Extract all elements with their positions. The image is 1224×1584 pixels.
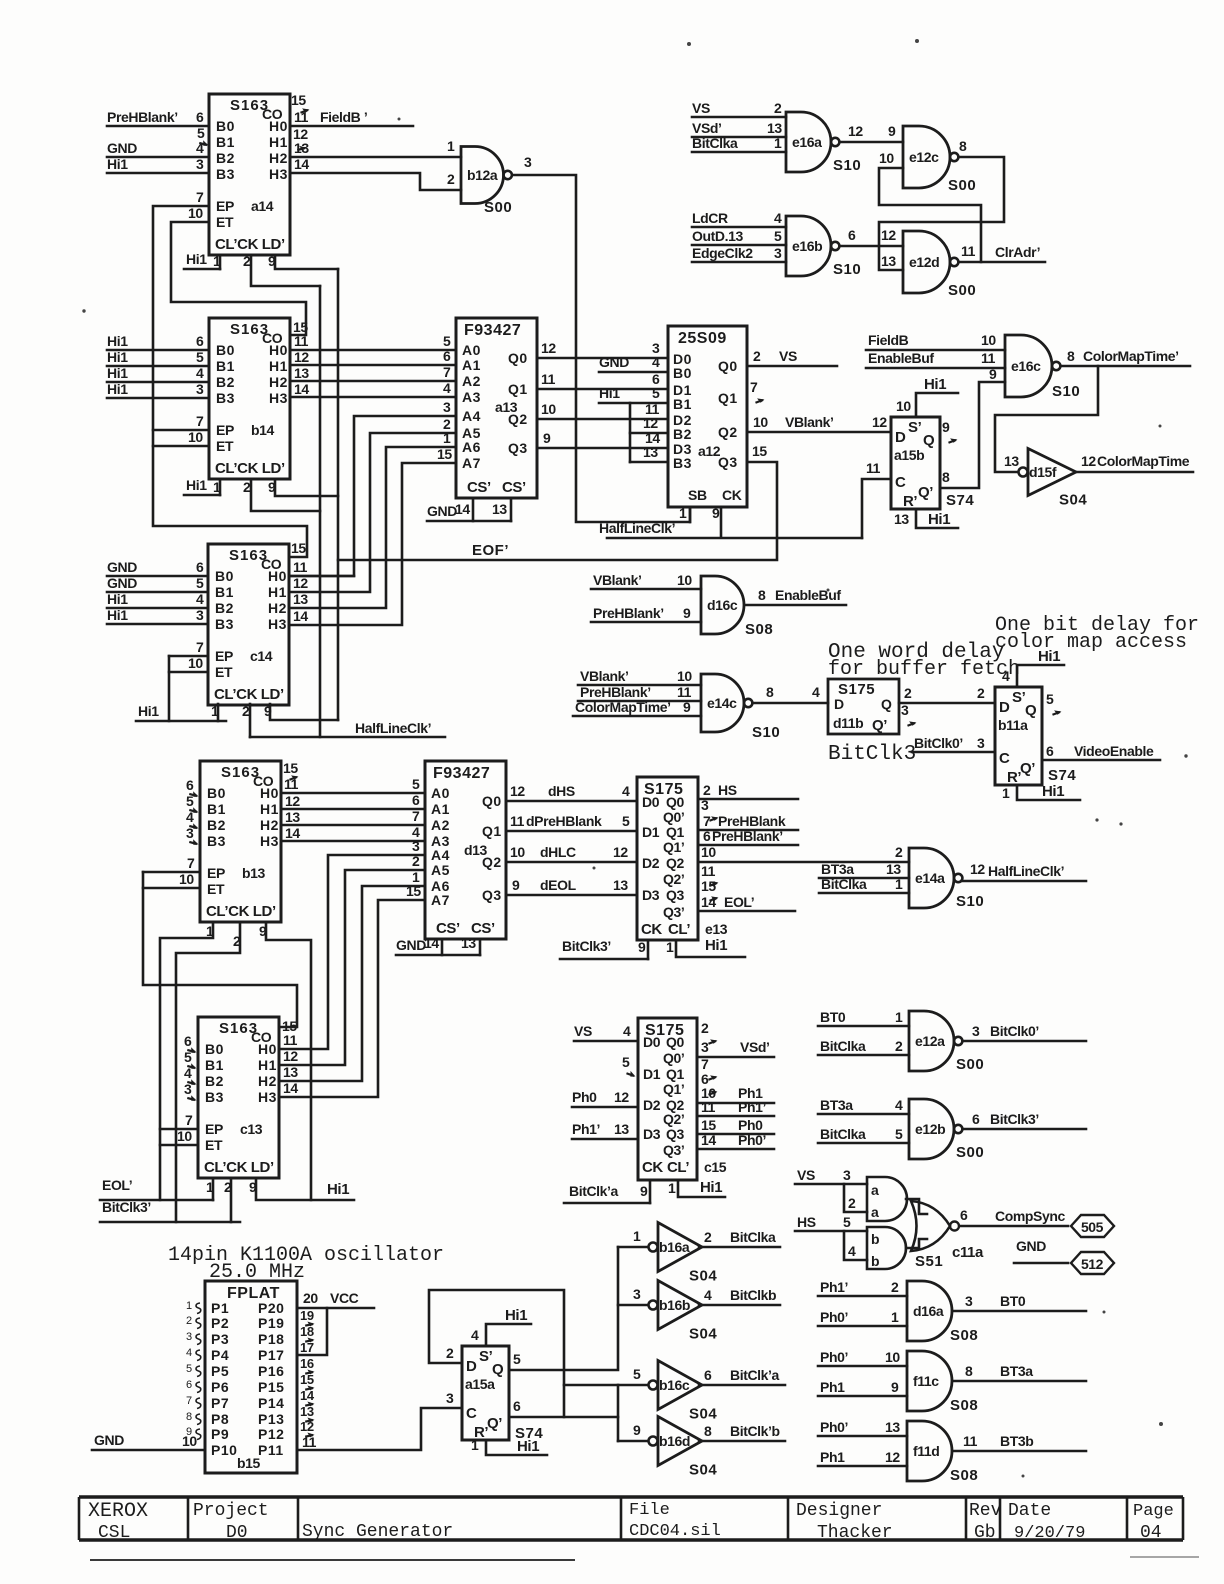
svg-text:2: 2 bbox=[224, 1179, 232, 1195]
wire a13.Q0 to a12.D0 bbox=[537, 357, 668, 360]
svg-text:P11: P11 bbox=[258, 1442, 284, 1458]
svg-text:3: 3 bbox=[196, 156, 204, 172]
wire GND to a14.B2 bbox=[107, 140, 209, 157]
svg-text:15: 15 bbox=[701, 878, 716, 894]
svg-text:Q’: Q’ bbox=[918, 484, 933, 501]
svg-text:4: 4 bbox=[471, 1327, 479, 1343]
svg-text:H0: H0 bbox=[269, 118, 288, 134]
svg-text:1: 1 bbox=[891, 1309, 899, 1325]
svg-text:H1: H1 bbox=[269, 358, 288, 374]
wire d13.Q1 dPreHBlank to e13.D1 bbox=[506, 830, 637, 833]
wire b11a.S' to Hi1 bbox=[1017, 665, 1064, 687]
wire b16b input bbox=[618, 1304, 648, 1307]
svg-text:S10: S10 bbox=[833, 261, 861, 278]
svg-text:P1: P1 bbox=[211, 1300, 229, 1316]
marks b15 unconnected inputs P1-P9 bbox=[186, 1300, 201, 1440]
wire Hi1 to b14.B2 bbox=[107, 365, 209, 382]
svg-text:S04: S04 bbox=[689, 1268, 717, 1285]
svg-text:11: 11 bbox=[961, 243, 976, 259]
svg-text:CDC04.sil: CDC04.sil bbox=[629, 1522, 721, 1541]
wire FieldB to e16c.10 bbox=[866, 332, 1005, 350]
svg-text:Q: Q bbox=[881, 696, 892, 712]
wire e14a.12 HalfLineClk' bbox=[963, 863, 1087, 881]
svg-text:ColorMapTime: ColorMapTime bbox=[1097, 453, 1190, 469]
svg-text:11: 11 bbox=[294, 333, 309, 349]
svg-text:11: 11 bbox=[701, 1099, 716, 1115]
svg-text:B3: B3 bbox=[215, 616, 234, 632]
nand gate b12a bbox=[461, 147, 512, 217]
wire e13.Q0 HS bbox=[698, 782, 798, 799]
svg-text:B2: B2 bbox=[215, 600, 234, 616]
svg-text:ClrAdr’: ClrAdr’ bbox=[995, 244, 1040, 260]
svg-text:4: 4 bbox=[848, 1243, 856, 1259]
svg-text:Q3: Q3 bbox=[482, 887, 502, 903]
svg-text:f11d: f11d bbox=[913, 1443, 939, 1459]
svg-text:Q0: Q0 bbox=[482, 793, 502, 809]
svg-text:1: 1 bbox=[774, 135, 782, 151]
svg-text:EOF’: EOF’ bbox=[472, 542, 509, 559]
wire GND a13 bbox=[427, 503, 511, 521]
wire b14.CO carry to a14.ET bbox=[171, 222, 306, 335]
and gate f11c bbox=[907, 1351, 978, 1414]
and gate d16a bbox=[907, 1281, 978, 1344]
svg-text:dHLC: dHLC bbox=[540, 844, 576, 860]
svg-text:12: 12 bbox=[294, 349, 309, 365]
wire b11a.R' to Hi1 bbox=[1017, 785, 1080, 800]
wire HalfLineClk' to a15b.C bbox=[862, 479, 891, 538]
counter a14 (S163) bbox=[209, 94, 290, 255]
wire BitClka to e16a.1 bbox=[692, 135, 786, 152]
wire e13.CL' to Hi1 bbox=[676, 940, 745, 957]
svg-text:7: 7 bbox=[185, 1112, 193, 1128]
svg-text:BT0: BT0 bbox=[820, 1009, 846, 1025]
svg-text:1: 1 bbox=[213, 253, 221, 269]
svg-text:H3: H3 bbox=[260, 833, 279, 849]
svg-text:B3: B3 bbox=[216, 390, 235, 406]
svg-text:GND: GND bbox=[107, 140, 137, 156]
svg-text:B2: B2 bbox=[207, 817, 226, 833]
inverter b16a bbox=[649, 1223, 718, 1285]
svg-text:S08: S08 bbox=[745, 621, 773, 638]
svg-text:BitClka: BitClka bbox=[820, 1038, 866, 1054]
svg-text:10: 10 bbox=[188, 655, 203, 671]
svg-text:7: 7 bbox=[196, 189, 204, 205]
svg-text:3: 3 bbox=[186, 825, 194, 841]
counter c14 (S163) bbox=[208, 544, 289, 705]
svg-text:12: 12 bbox=[510, 783, 525, 799]
svg-text:BitClka: BitClka bbox=[821, 876, 867, 892]
wire b14.EP bbox=[153, 429, 209, 432]
svg-text:F93427: F93427 bbox=[464, 322, 521, 339]
wire c14.H0 stub bbox=[290, 575, 354, 578]
svg-text:9: 9 bbox=[259, 923, 267, 939]
svg-text:CS’: CS’ bbox=[436, 920, 460, 937]
wire a15a.Q' to inverters bbox=[509, 1416, 618, 1419]
svg-text:d11b: d11b bbox=[833, 715, 863, 731]
svg-text:Ph1: Ph1 bbox=[820, 1449, 845, 1465]
wire c14.H2 to a13.A6 bbox=[290, 447, 456, 608]
svg-text:15: 15 bbox=[300, 1372, 314, 1387]
svg-text:BitClk3’: BitClk3’ bbox=[562, 938, 611, 954]
wire BT3a to e14a.13 bbox=[819, 861, 909, 878]
svg-text:BitClka: BitClka bbox=[820, 1126, 866, 1142]
svg-text:a: a bbox=[871, 1204, 879, 1220]
svg-text:Hi1: Hi1 bbox=[705, 937, 727, 954]
labels d13 pins bbox=[431, 785, 502, 937]
svg-text:b11a: b11a bbox=[998, 717, 1028, 733]
svg-text:dHS: dHS bbox=[548, 783, 575, 799]
wire d13.Q2 dHLC to e13.D2 bbox=[506, 861, 637, 864]
svg-text:A0: A0 bbox=[431, 785, 450, 801]
svg-text:Q1: Q1 bbox=[666, 824, 684, 840]
svg-text:BT3a: BT3a bbox=[820, 1097, 853, 1113]
wire a14.LD' to LD-net bbox=[275, 255, 338, 269]
svg-text:S04: S04 bbox=[689, 1406, 717, 1423]
svg-text:P7: P7 bbox=[211, 1395, 229, 1411]
svg-text:12: 12 bbox=[293, 575, 308, 591]
svg-text:11: 11 bbox=[701, 863, 716, 879]
labels a13 pins bbox=[462, 342, 528, 496]
wire Hi1 to b14.B0 bbox=[107, 333, 209, 350]
svg-text:10: 10 bbox=[510, 844, 525, 860]
wire c13.CK stub bbox=[230, 1179, 233, 1222]
svg-text:3: 3 bbox=[774, 245, 782, 261]
wire b16d.8 BitClk'b bbox=[699, 1423, 785, 1441]
wire b12a.3 to a12.SB bbox=[513, 175, 691, 522]
wire e13.Q1 PreHBlank bbox=[698, 813, 798, 830]
svg-text:BT3b: BT3b bbox=[1000, 1433, 1033, 1449]
svg-text:Q3: Q3 bbox=[718, 454, 738, 470]
svg-text:b16b: b16b bbox=[659, 1297, 690, 1313]
svg-text:3: 3 bbox=[901, 702, 909, 718]
svg-text:Date: Date bbox=[1008, 1501, 1051, 1521]
svg-text:P20: P20 bbox=[258, 1300, 284, 1316]
svg-text:FieldB: FieldB bbox=[868, 332, 909, 348]
svg-text:B0: B0 bbox=[207, 785, 226, 801]
svg-text:P15: P15 bbox=[258, 1379, 284, 1395]
wire b16a.2 BitClka bbox=[699, 1229, 780, 1247]
svg-text:11: 11 bbox=[284, 776, 299, 792]
wire a14.CL' stub bbox=[219, 255, 222, 269]
svg-text:14: 14 bbox=[293, 608, 308, 624]
svg-text:1: 1 bbox=[186, 1300, 192, 1312]
svg-text:CL’CK LD’: CL’CK LD’ bbox=[215, 236, 285, 253]
svg-text:11: 11 bbox=[541, 371, 556, 387]
svg-text:9: 9 bbox=[712, 505, 720, 521]
wire Hi1 to a12.B1,B2,B3 bbox=[599, 385, 668, 403]
wire c13.H2 to d13.A6 bbox=[279, 886, 425, 1081]
wire c15.CL' to Hi1 bbox=[678, 1180, 725, 1197]
svg-text:14: 14 bbox=[300, 1388, 315, 1403]
svg-text:11: 11 bbox=[866, 460, 881, 476]
svg-text:b15: b15 bbox=[237, 1455, 261, 1471]
svg-text:A1: A1 bbox=[431, 801, 450, 817]
svg-text:CS’: CS’ bbox=[502, 479, 526, 496]
svg-text:P2: P2 bbox=[211, 1315, 229, 1331]
svg-text:BitClka: BitClka bbox=[692, 135, 738, 151]
svg-text:P3: P3 bbox=[211, 1331, 229, 1347]
svg-text:CL’CK LD’: CL’CK LD’ bbox=[204, 1159, 274, 1176]
wire Hi1 to b14.B1 bbox=[107, 349, 209, 366]
svg-text:12: 12 bbox=[848, 123, 863, 139]
svg-text:13: 13 bbox=[300, 1404, 314, 1419]
svg-text:6: 6 bbox=[196, 559, 204, 575]
svg-text:8: 8 bbox=[965, 1363, 973, 1379]
wire a13.Q2 to a12.D2 bbox=[537, 418, 668, 421]
svg-text:3: 3 bbox=[186, 1331, 192, 1343]
svg-text:A6: A6 bbox=[462, 439, 481, 455]
svg-text:10: 10 bbox=[179, 871, 194, 887]
svg-text:10: 10 bbox=[701, 844, 716, 860]
svg-text:PreHBlank’: PreHBlank’ bbox=[107, 109, 178, 125]
register d11b (S175) bbox=[828, 679, 899, 734]
svg-text:1: 1 bbox=[211, 703, 219, 719]
wire BitClka to e12b.5 bbox=[818, 1126, 909, 1143]
svg-text:6: 6 bbox=[960, 1207, 968, 1223]
wire b14.CK to CK-net bbox=[251, 479, 320, 511]
svg-text:Hi1: Hi1 bbox=[700, 1179, 722, 1196]
wire d15f.12 ColorMapTime bbox=[1076, 453, 1193, 472]
svg-text:Q1’: Q1’ bbox=[663, 839, 684, 855]
svg-text:10: 10 bbox=[677, 668, 692, 684]
svg-text:12: 12 bbox=[614, 1089, 629, 1105]
wire e12c.8 to e12d.13 bbox=[879, 157, 1004, 270]
svg-text:Q0: Q0 bbox=[666, 1034, 684, 1050]
wire b11a.Q' VideoEnable bbox=[1042, 743, 1160, 760]
register c15 (S175) bbox=[638, 1018, 697, 1180]
svg-text:15: 15 bbox=[283, 760, 298, 776]
svg-text:19: 19 bbox=[300, 1308, 314, 1323]
svg-text:H3: H3 bbox=[268, 616, 287, 632]
svg-text:Ph0’: Ph0’ bbox=[820, 1349, 848, 1365]
svg-text:S00: S00 bbox=[956, 1056, 984, 1073]
svg-text:11: 11 bbox=[677, 684, 692, 700]
wire b14.ET bbox=[153, 445, 209, 448]
wire Ph0' to f11d.13 bbox=[818, 1419, 907, 1436]
svg-text:B0: B0 bbox=[216, 118, 235, 134]
svg-text:H1: H1 bbox=[260, 801, 279, 817]
wire c15.Q3' Ph0' bbox=[697, 1132, 774, 1149]
wire a15a.R' to Hi1 bbox=[486, 1440, 547, 1455]
svg-text:ET: ET bbox=[205, 1137, 223, 1153]
svg-text:3: 3 bbox=[412, 838, 420, 854]
svg-text:4: 4 bbox=[196, 365, 204, 381]
svg-text:12: 12 bbox=[643, 415, 658, 431]
svg-text:Q1: Q1 bbox=[718, 390, 738, 406]
wire e16c.8 ColorMapTime' bbox=[1062, 348, 1191, 366]
svg-text:Q3: Q3 bbox=[508, 440, 528, 456]
svg-text:D0: D0 bbox=[642, 794, 660, 810]
svg-text:P17: P17 bbox=[258, 1347, 284, 1363]
svg-text:d16c: d16c bbox=[707, 597, 738, 613]
svg-text:P18: P18 bbox=[258, 1331, 284, 1347]
register a12 (25S09) bbox=[668, 326, 747, 507]
svg-text:color map access: color map access bbox=[995, 631, 1187, 654]
wire d13.Q0 dHS to e13.D0 bbox=[506, 800, 637, 803]
wire GND to c14.B1 bbox=[107, 575, 208, 592]
wire a14.H0 FieldB bbox=[290, 109, 413, 126]
wire b15.P17 to VCC bbox=[297, 1308, 327, 1355]
svg-text:9: 9 bbox=[989, 366, 997, 382]
wire a15b.Q' to e16c.9 bbox=[940, 382, 1005, 488]
wire Ph0 to c15.D2 bbox=[572, 1089, 638, 1107]
label One bit delay for / color map access bbox=[995, 614, 1199, 654]
svg-text:B1: B1 bbox=[216, 358, 235, 374]
svg-text:2: 2 bbox=[891, 1279, 899, 1295]
svg-text:S74: S74 bbox=[946, 492, 974, 509]
svg-text:Q1: Q1 bbox=[482, 823, 502, 839]
nand gate e16b bbox=[786, 216, 861, 278]
svg-text:4: 4 bbox=[812, 684, 820, 700]
svg-text:11: 11 bbox=[293, 559, 308, 575]
wire e13.CK stub bbox=[647, 940, 650, 959]
svg-text:5: 5 bbox=[843, 1214, 851, 1230]
svg-text:1: 1 bbox=[895, 876, 903, 892]
svg-text:5: 5 bbox=[186, 793, 194, 809]
svg-text:BitClk3’: BitClk3’ bbox=[990, 1111, 1039, 1127]
svg-text:S08: S08 bbox=[950, 1327, 978, 1344]
svg-text:e12b: e12b bbox=[915, 1121, 945, 1137]
wire e13.Q2 to e14a.2 bbox=[698, 861, 909, 864]
wire a12.Q2 VBlank' to a15b.D bbox=[747, 414, 891, 432]
svg-text:Q’: Q’ bbox=[1020, 760, 1035, 777]
wire b15.P11 to a15a.C bbox=[297, 1408, 462, 1450]
svg-text:Q0’: Q0’ bbox=[663, 1050, 684, 1066]
svg-text:2: 2 bbox=[904, 685, 912, 701]
svg-text:13: 13 bbox=[613, 877, 628, 893]
svg-text:ColorMapTime’: ColorMapTime’ bbox=[575, 699, 671, 715]
labels b15 pins bbox=[211, 1300, 284, 1471]
svg-text:3: 3 bbox=[184, 1081, 192, 1097]
wire e16a.12 to e12c.9 bbox=[840, 141, 903, 144]
svg-text:Hi1: Hi1 bbox=[1042, 783, 1064, 800]
svg-text:S08: S08 bbox=[950, 1467, 978, 1484]
svg-text:3: 3 bbox=[701, 1039, 709, 1055]
svg-text:HS: HS bbox=[718, 782, 737, 798]
svg-text:8: 8 bbox=[766, 684, 774, 700]
svg-text:Q0: Q0 bbox=[718, 358, 738, 374]
wire e12a.3 BitClk0' bbox=[963, 1023, 1087, 1041]
svg-text:3: 3 bbox=[977, 735, 985, 751]
svg-text:b13: b13 bbox=[242, 865, 266, 881]
labels c15 pins bbox=[642, 1034, 689, 1176]
wire Ph1 to f11c.9 bbox=[818, 1379, 907, 1396]
svg-text:a14: a14 bbox=[251, 198, 274, 214]
svg-text:3: 3 bbox=[843, 1167, 851, 1183]
svg-text:S74: S74 bbox=[1048, 767, 1076, 784]
svg-text:B3: B3 bbox=[673, 455, 692, 471]
svg-text:7: 7 bbox=[703, 813, 711, 829]
svg-text:1: 1 bbox=[666, 939, 674, 955]
nand gate e16c bbox=[1005, 335, 1080, 400]
svg-text:b14: b14 bbox=[251, 422, 275, 438]
svg-text:12: 12 bbox=[881, 227, 896, 243]
svg-text:7: 7 bbox=[750, 379, 758, 395]
svg-text:CK: CK bbox=[642, 1159, 663, 1176]
svg-text:10: 10 bbox=[753, 414, 768, 430]
svg-text:1: 1 bbox=[633, 1228, 641, 1244]
svg-text:e14a: e14a bbox=[915, 870, 945, 886]
svg-text:BitClkb: BitClkb bbox=[730, 1287, 776, 1303]
svg-text:Ph1’: Ph1’ bbox=[572, 1121, 600, 1137]
wire a15b.S' to Hi1 bbox=[916, 393, 958, 417]
svg-text:11: 11 bbox=[283, 1032, 298, 1048]
svg-text:12: 12 bbox=[1081, 453, 1096, 469]
svg-text:SB: SB bbox=[688, 487, 707, 503]
svg-text:H0: H0 bbox=[269, 342, 288, 358]
svg-text:5: 5 bbox=[412, 776, 420, 792]
svg-text:9: 9 bbox=[512, 877, 520, 893]
svg-text:8: 8 bbox=[186, 1411, 192, 1423]
svg-text:R’: R’ bbox=[903, 493, 917, 510]
svg-text:6: 6 bbox=[196, 333, 204, 349]
svg-text:BitClk0’: BitClk0’ bbox=[990, 1023, 1039, 1039]
svg-text:D0: D0 bbox=[643, 1034, 661, 1050]
svg-text:a13: a13 bbox=[495, 399, 518, 415]
svg-text:B2: B2 bbox=[205, 1073, 224, 1089]
svg-text:8: 8 bbox=[704, 1423, 712, 1439]
svg-text:H1: H1 bbox=[268, 584, 287, 600]
svg-text:GND: GND bbox=[94, 1432, 124, 1448]
svg-text:Hi1: Hi1 bbox=[107, 591, 128, 607]
wire a15a.Q to inverters bbox=[509, 1247, 618, 1370]
labels e13 pins bbox=[641, 794, 690, 938]
svg-text:Hi1: Hi1 bbox=[928, 511, 950, 528]
svg-text:13: 13 bbox=[492, 501, 507, 517]
svg-text:PreHBlank’: PreHBlank’ bbox=[580, 684, 651, 700]
svg-text:Hi1: Hi1 bbox=[107, 381, 128, 397]
svg-text:A4: A4 bbox=[431, 847, 450, 863]
svg-text:12: 12 bbox=[300, 1419, 314, 1434]
wire BitClk'a to c15.CK bbox=[564, 1183, 650, 1203]
svg-text:CL’: CL’ bbox=[667, 1159, 689, 1176]
svg-text:B2: B2 bbox=[673, 426, 692, 442]
wire GND to c14.B0 bbox=[107, 559, 208, 576]
svg-text:A5: A5 bbox=[431, 862, 450, 878]
svg-text:A0: A0 bbox=[462, 342, 481, 358]
svg-text:BitClka: BitClka bbox=[730, 1229, 776, 1245]
svg-text:Hi1: Hi1 bbox=[138, 703, 159, 719]
wire a12.B2 stub bbox=[630, 432, 668, 435]
svg-text:2: 2 bbox=[774, 100, 782, 116]
svg-text:Ph0’: Ph0’ bbox=[738, 1132, 766, 1148]
svg-text:Page: Page bbox=[1133, 1502, 1174, 1521]
svg-text:b: b bbox=[871, 1231, 879, 1247]
wire GND to a12.B0 bbox=[599, 354, 668, 372]
nand gate e12b bbox=[909, 1099, 984, 1161]
svg-text:Hi1: Hi1 bbox=[505, 1307, 527, 1324]
svg-text:9: 9 bbox=[638, 939, 646, 955]
wire b16c/d tie bbox=[617, 1385, 620, 1441]
wire a13.Q3 to a12.D3 bbox=[537, 447, 668, 450]
svg-text:B3: B3 bbox=[205, 1089, 224, 1105]
wire e13.Q1' PreHBlank' bbox=[698, 828, 798, 845]
wire b13.H0 to d13.A0 bbox=[281, 792, 425, 795]
svg-text:Ph0: Ph0 bbox=[572, 1089, 597, 1105]
svg-text:4: 4 bbox=[895, 1097, 903, 1113]
svg-text:c14: c14 bbox=[250, 648, 273, 664]
svg-text:b16d: b16d bbox=[659, 1433, 690, 1449]
nor gate c11a bbox=[911, 1201, 984, 1270]
svg-text:D2: D2 bbox=[643, 1097, 661, 1113]
wire b16b.4 BitClkb bbox=[699, 1287, 780, 1305]
wire c14.H0 to a13.A4 bbox=[290, 416, 456, 576]
wire PreHBlank' to a14.B0 bbox=[107, 109, 209, 126]
svg-text:A2: A2 bbox=[431, 817, 450, 833]
svg-text:H2: H2 bbox=[268, 600, 287, 616]
wire EdgeClk2 to e16b.3 bbox=[692, 245, 786, 262]
svg-text:R’: R’ bbox=[1007, 769, 1021, 786]
